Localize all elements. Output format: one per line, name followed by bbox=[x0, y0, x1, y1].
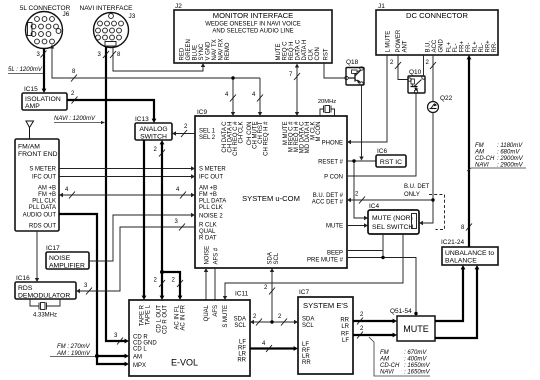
svg-text:DATA H: DATA H bbox=[302, 40, 308, 61]
svg-text:REQ H: REQ H bbox=[289, 41, 295, 60]
svg-text:PHONE: PHONE bbox=[322, 141, 343, 147]
svg-text:MUTE: MUTE bbox=[276, 44, 282, 61]
svg-text:B.U. DET #: B.U. DET # bbox=[313, 193, 344, 199]
svg-text:J6: J6 bbox=[63, 11, 70, 18]
svg-text:FM: FM bbox=[380, 350, 389, 356]
svg-text:AC IN FR: AC IN FR bbox=[181, 304, 187, 330]
slash 2 (CD OUT) bbox=[159, 280, 165, 287]
junction node (AM/MPX) bbox=[95, 354, 99, 358]
svg-text:SDA: SDA bbox=[302, 317, 314, 323]
svg-text:IC13: IC13 bbox=[135, 116, 149, 123]
slash 2 (SDA vertical) bbox=[269, 288, 275, 295]
svg-text:: 400mV: : 400mV bbox=[404, 357, 427, 363]
svg-text:RR+: RR+ bbox=[486, 40, 492, 53]
svg-text:UNBALANCE to: UNBALANCE to bbox=[445, 250, 494, 257]
svg-text:MUTE: MUTE bbox=[326, 224, 343, 230]
svg-text:SCL: SCL bbox=[234, 323, 246, 329]
svg-text:AFS #: AFS # bbox=[214, 247, 220, 264]
IC4 MUTE (NOR) SEL SWITCH bbox=[368, 210, 419, 234]
svg-text:: 1180mV: : 1180mV bbox=[497, 143, 523, 149]
svg-text:AM: AM bbox=[379, 357, 389, 363]
svg-text:Q18: Q18 bbox=[346, 59, 359, 66]
svg-text:AM: AM bbox=[474, 150, 484, 156]
junction node (MUTE gate) bbox=[414, 312, 417, 315]
wire J3 NAVI audio down to E-VOL CD inputs (3 lines) bbox=[106, 47, 125, 341]
svg-text:QUAL: QUAL bbox=[199, 229, 216, 235]
junction node (RESET# branch) bbox=[352, 159, 355, 162]
wire J1 POWER/ANT to Q10 (2 lines) bbox=[398, 55, 408, 80]
IC16 RDS DEMODULATOR bbox=[15, 282, 76, 300]
svg-text:QUAL: QUAL bbox=[204, 304, 210, 321]
slash 2 (RR/LR) bbox=[357, 318, 363, 325]
slash 8 (J6 bus) bbox=[71, 75, 77, 82]
slash 2 (RF/LF) bbox=[357, 332, 363, 339]
svg-text:RL-: RL- bbox=[479, 43, 485, 53]
svg-text:AM +B: AM +B bbox=[199, 186, 217, 192]
svg-text:: 670mV: : 670mV bbox=[404, 350, 427, 356]
svg-text:RED: RED bbox=[180, 47, 186, 60]
transistor Q22 bbox=[428, 102, 439, 113]
svg-text:FM: FM bbox=[475, 143, 484, 149]
wire S METER bbox=[59, 168, 192, 170]
svg-text:RR: RR bbox=[340, 318, 349, 324]
svg-text:AM : 190mV: AM : 190mV bbox=[56, 351, 91, 357]
svg-text:SEL 1: SEL 1 bbox=[199, 129, 216, 135]
wire J6 to IC15 (3 lines) bbox=[43, 49, 45, 92]
svg-text:GREEN: GREEN bbox=[186, 39, 192, 60]
svg-text:S METER: S METER bbox=[29, 167, 56, 173]
svg-text:AM: AM bbox=[133, 355, 142, 361]
svg-text:: 1650mV: : 1650mV bbox=[404, 363, 431, 369]
svg-text:CD R OUT: CD R OUT bbox=[163, 305, 169, 334]
wire Q18 emitter to RESET# bbox=[361, 86, 363, 158]
svg-text:IC16: IC16 bbox=[16, 275, 30, 282]
value label NAVI : 1200mV bbox=[54, 116, 105, 124]
svg-text:NOISE 2: NOISE 2 bbox=[199, 214, 223, 220]
wire MUTE out upper to UNBALANCE bbox=[435, 268, 463, 321]
svg-text:ANT: ANT bbox=[403, 40, 409, 52]
svg-text:RST: RST bbox=[324, 48, 330, 60]
svg-text:MUTE: MUTE bbox=[403, 324, 429, 334]
IC21-24 UNBALANCE to BALANCE bbox=[442, 247, 498, 265]
svg-text:B.U.: B.U. bbox=[426, 40, 432, 52]
svg-text:RST IC: RST IC bbox=[380, 159, 402, 166]
svg-text:MPX: MPX bbox=[133, 363, 146, 369]
wire SDA/SCL between IC11 and IC7 bbox=[253, 321, 295, 323]
wire PRE MUTE # to MUTE transistors bbox=[347, 258, 416, 317]
svg-text:4.33MHz: 4.33MHz bbox=[33, 313, 57, 319]
svg-text:PLL DATA: PLL DATA bbox=[29, 205, 56, 211]
svg-text:TAPE L: TAPE L bbox=[146, 304, 152, 325]
value label 5L : 1200mV bbox=[8, 67, 44, 74]
IC13 ANALOG SWITCH bbox=[135, 123, 172, 141]
svg-text:FL-: FL- bbox=[453, 43, 459, 52]
value label FM : 270mV / AM : 190mV bbox=[50, 344, 95, 357]
IC11 E-VOL bbox=[129, 300, 250, 376]
slash 2 (ACC) bbox=[430, 62, 436, 69]
svg-text:RR: RR bbox=[302, 360, 311, 366]
svg-text:RR: RR bbox=[237, 358, 246, 364]
wire IC15 to IC13 (2 lines) bbox=[67, 100, 154, 121]
svg-text:IC9: IC9 bbox=[197, 109, 208, 116]
slash 3 (J3 top) bbox=[103, 51, 109, 58]
svg-text:NOISE: NOISE bbox=[205, 246, 211, 265]
svg-text:CLK: CLK bbox=[309, 49, 315, 61]
svg-text:DC CONNECTOR: DC CONNECTOR bbox=[406, 11, 468, 20]
wire J6 8-line bus to IC9 CH pins bbox=[52, 47, 260, 114]
svg-text:B.U. DET: B.U. DET bbox=[404, 184, 430, 190]
svg-text:Q51-54: Q51-54 bbox=[390, 308, 412, 315]
svg-text:FL+: FL+ bbox=[447, 41, 453, 52]
svg-text:IC21-24: IC21-24 bbox=[441, 239, 465, 246]
svg-text:BLUE: BLUE bbox=[193, 45, 199, 61]
slash 2 (POWER) bbox=[395, 62, 401, 69]
svg-text:MONITOR INTERFACE: MONITOR INTERFACE bbox=[213, 11, 293, 20]
wire IC4 output to PRE MUTE node bbox=[382, 234, 384, 258]
connector J3 (NAVI INTERFACE) bbox=[94, 13, 129, 48]
svg-text:IC6: IC6 bbox=[377, 148, 388, 155]
slash 3 (RDS right) bbox=[179, 224, 185, 231]
svg-text:PRE MUTE #: PRE MUTE # bbox=[307, 258, 344, 264]
wire AUDIO OUT to E-VOL AM/MPX bbox=[59, 214, 125, 364]
svg-text:SDA: SDA bbox=[268, 252, 274, 264]
slash 2 (SDA left) bbox=[256, 319, 262, 326]
wire J3 to J2 V GND (8 lines) bbox=[113, 48, 203, 72]
svg-text:ISOLATION: ISOLATION bbox=[25, 96, 61, 103]
svg-text:LF: LF bbox=[342, 338, 349, 344]
svg-text:FR-: FR- bbox=[466, 43, 472, 53]
svg-text:: 680mV: : 680mV bbox=[497, 150, 520, 156]
svg-text:BEEP: BEEP bbox=[327, 251, 343, 257]
wire IC4 output to IC11 S MUTE bbox=[225, 234, 403, 297]
svg-text:FM/AM: FM/AM bbox=[18, 144, 40, 151]
svg-text:NAVI INTERFACE: NAVI INTERFACE bbox=[80, 5, 134, 12]
svg-text:GND: GND bbox=[439, 39, 445, 53]
slash 2 (SDA right) bbox=[281, 319, 287, 326]
svg-text:E-VOL: E-VOL bbox=[171, 358, 198, 368]
svg-text:AMPLIFIER: AMPLIFIER bbox=[49, 263, 85, 270]
wire LF/RF/LR/RR bus IC11 to IC7 (4 lines) bbox=[250, 347, 295, 349]
svg-text:R DAT: R DAT bbox=[199, 236, 217, 242]
wire E-VOL CD OUT loop to IC13 (2 lines) bbox=[162, 143, 180, 297]
svg-text:J2: J2 bbox=[175, 3, 182, 10]
junction node (CD OUT loop) bbox=[160, 270, 164, 274]
svg-text:BALANCE: BALANCE bbox=[445, 258, 477, 265]
svg-text:NAVI : 1200mV: NAVI : 1200mV bbox=[54, 116, 96, 122]
svg-text:NAV RX: NAV RX bbox=[219, 39, 225, 61]
svg-text:CON: CON bbox=[315, 47, 321, 60]
slash 2 (AC IN) bbox=[177, 280, 183, 287]
svg-text:AMP: AMP bbox=[25, 103, 40, 110]
svg-text:RL+: RL+ bbox=[473, 41, 479, 53]
slash 7 (J2 bus) bbox=[294, 73, 300, 80]
wire NOISE AMP to IC9 NOISE 2 bbox=[89, 215, 192, 261]
wire PHONE to J1 L MUTE bbox=[350, 55, 387, 142]
svg-text:NOISE: NOISE bbox=[49, 255, 71, 262]
svg-text:: 1650mV: : 1650mV bbox=[404, 370, 431, 376]
connector J1 DC CONNECTOR bbox=[376, 10, 498, 55]
svg-text:MUTE (NOR): MUTE (NOR) bbox=[372, 215, 413, 222]
svg-text:ONLY: ONLY bbox=[404, 192, 420, 198]
value table FM/AM/CD-CH/NAVI (mute out) bbox=[369, 337, 431, 376]
wire RESET# branch to IC4 bbox=[354, 161, 365, 218]
svg-text:IC7: IC7 bbox=[299, 289, 310, 296]
note B.U. DET ONLY bbox=[404, 184, 430, 198]
svg-text:DEMODULATOR: DEMODULATOR bbox=[18, 293, 70, 300]
slash 8 (speaker bus) bbox=[466, 224, 472, 231]
svg-text:IC4: IC4 bbox=[369, 203, 380, 210]
slash 4 (CH group 2) bbox=[257, 95, 263, 102]
transistor Q10 bbox=[408, 76, 425, 93]
wire MUTE out lower to UNBALANCE bbox=[435, 268, 477, 338]
wire IC9 MUTE to IC4 bbox=[347, 225, 365, 227]
slash 4 (PLL left) bbox=[69, 192, 75, 199]
connector J2 MONITOR INTERFACE bbox=[174, 10, 332, 63]
slash 4 (LF bus) bbox=[266, 345, 272, 352]
svg-text:CH CLK: CH CLK bbox=[239, 122, 245, 144]
svg-text:WEDGE ONESELF IN NAVI VOICE: WEDGE ONESELF IN NAVI VOICE bbox=[205, 22, 301, 28]
transistor group Q51-54 MUTE bbox=[397, 316, 435, 341]
svg-text:AUDIO OUT: AUDIO OUT bbox=[23, 213, 57, 219]
wire Q10 collector to J1 bbox=[423, 55, 425, 76]
svg-text:IC11: IC11 bbox=[235, 291, 249, 298]
wire IFC OUT bbox=[59, 176, 192, 178]
slash 3 (RDS left) bbox=[86, 288, 92, 295]
wire IC7 RF/LF to MUTE (2 lines) bbox=[353, 334, 394, 336]
wire J2 RST to Q18 base bbox=[324, 63, 345, 78]
op-amp IC15 ISOLATION AMP bbox=[22, 93, 67, 110]
slash 2 (IC15-IC13) bbox=[72, 97, 78, 104]
svg-text:RDS OUT: RDS OUT bbox=[29, 224, 56, 230]
svg-text:FM +B: FM +B bbox=[199, 192, 217, 198]
svg-text:IFC OUT: IFC OUT bbox=[32, 175, 56, 181]
IC7 SYSTEM E'S bbox=[298, 297, 353, 374]
svg-text:R CLK: R CLK bbox=[199, 223, 217, 229]
svg-text:J1: J1 bbox=[378, 3, 385, 10]
svg-text:POWER: POWER bbox=[396, 29, 402, 52]
svg-text:SYSTEM E'S: SYSTEM E'S bbox=[303, 301, 348, 310]
wire UNBALANCE to J1 speakers (8 lines) bbox=[468, 58, 470, 247]
svg-text:ACC: ACC bbox=[432, 39, 438, 52]
wire node to IC4 right side bbox=[423, 200, 434, 223]
svg-text:DATA C: DATA C bbox=[296, 39, 302, 60]
svg-text:L MUTE: L MUTE bbox=[386, 31, 392, 53]
IC9 SYSTEM u-COM bbox=[195, 116, 347, 268]
svg-text:5L : 1200mV: 5L : 1200mV bbox=[8, 67, 43, 73]
connector J6 (5L CONNECTOR) bbox=[26, 12, 63, 49]
svg-text:RF: RF bbox=[341, 332, 349, 338]
FM/AM FRONT END bbox=[15, 139, 59, 231]
svg-text:SEL 2: SEL 2 bbox=[199, 135, 216, 141]
svg-text:PLL DATA: PLL DATA bbox=[199, 199, 226, 205]
svg-text:AND SELECTED AUDIO LINE: AND SELECTED AUDIO LINE bbox=[212, 29, 293, 35]
slash 3 (J6-IC15) bbox=[41, 51, 47, 58]
svg-text:CD-CH: CD-CH bbox=[380, 363, 400, 369]
svg-text:SYNC: SYNC bbox=[199, 43, 205, 60]
svg-text:FM +B: FM +B bbox=[38, 192, 56, 198]
wire PLL bus (4 lines) bbox=[62, 194, 192, 196]
slash 2 (SEL) bbox=[181, 130, 187, 137]
wire IC7 RR/LR to MUTE (2 lines) bbox=[353, 320, 394, 322]
wire IC13 to E-VOL TAPE (2 lines) bbox=[143, 140, 145, 297]
svg-text:SWITCH: SWITCH bbox=[140, 134, 167, 141]
svg-text:CD-CH: CD-CH bbox=[475, 156, 495, 162]
antenna bbox=[26, 121, 34, 139]
svg-text:Q10: Q10 bbox=[409, 69, 422, 76]
svg-text:CH REQ H #: CH REQ H # bbox=[264, 121, 270, 156]
svg-text:20MHz: 20MHz bbox=[318, 99, 336, 105]
svg-text:ANALOG: ANALOG bbox=[139, 126, 167, 133]
svg-text:IFC OUT: IFC OUT bbox=[199, 175, 223, 181]
svg-text:REQ C: REQ C bbox=[283, 41, 289, 61]
svg-text:NAVI: NAVI bbox=[380, 370, 394, 376]
wire IC9 B.U.DET/ACC DET bus (2 lines) bbox=[350, 199, 433, 201]
svg-text:RDS: RDS bbox=[18, 285, 33, 292]
wire BEEP stub bbox=[347, 250, 383, 252]
wire IC9 AFS# to E-VOL AFS bbox=[214, 268, 216, 300]
wire J1 ACC to Q22 (2 lines) bbox=[432, 55, 434, 102]
wire IC9 NOISE to E-VOL QUAL bbox=[205, 271, 207, 300]
svg-text:RR-: RR- bbox=[492, 42, 498, 53]
svg-text:S METER: S METER bbox=[199, 167, 226, 173]
wire P CON to Q10 bbox=[347, 94, 416, 177]
slash 8 (J3-J2) bbox=[110, 51, 116, 58]
svg-text:SCL: SCL bbox=[274, 252, 280, 264]
wire Q22 to B.U./ACC DET node bbox=[432, 113, 434, 201]
svg-text:REMO: REMO bbox=[225, 42, 231, 60]
svg-text:CD L: CD L bbox=[133, 347, 147, 353]
svg-text:SEL SWITCH: SEL SWITCH bbox=[372, 224, 413, 231]
slash 2 (IC13 lower) bbox=[159, 150, 165, 157]
value table FM/AM/CD-CH/NAVI (line out) bbox=[467, 143, 526, 171]
svg-text:SDA: SDA bbox=[234, 317, 246, 323]
svg-text:S MUTE: S MUTE bbox=[223, 305, 229, 328]
junction node (B.U. DET node) bbox=[431, 198, 434, 201]
svg-text:NAV TX: NAV TX bbox=[212, 39, 218, 60]
svg-text:SYSTEM u-COM: SYSTEM u-COM bbox=[242, 194, 300, 203]
svg-text:FM : 270mV: FM : 270mV bbox=[57, 344, 91, 350]
svg-text:AFS: AFS bbox=[213, 305, 219, 317]
svg-text:PLL CLK: PLL CLK bbox=[199, 205, 223, 211]
wire RDS bus IC9 to IC16 (3 lines) bbox=[80, 227, 196, 291]
svg-text:IC17: IC17 bbox=[46, 245, 60, 252]
svg-text:: 2900mV: : 2900mV bbox=[497, 156, 524, 162]
junction node (SDA/SCL) bbox=[270, 320, 273, 323]
svg-text:J3: J3 bbox=[129, 13, 136, 20]
slash 3 (E-VOL CD in) bbox=[117, 338, 123, 345]
svg-text:Q22: Q22 bbox=[440, 95, 453, 102]
slash 4 (PLL right) bbox=[180, 192, 186, 199]
svg-text:ACC DET #: ACC DET # bbox=[312, 200, 344, 206]
crystal X2 4.33MHz bbox=[30, 299, 60, 310]
IC17 NOISE AMPLIFIER bbox=[46, 252, 89, 270]
junction node (J6 bus branch) bbox=[231, 76, 234, 79]
svg-text:FRONT END: FRONT END bbox=[18, 151, 58, 158]
IC6 RST IC bbox=[376, 155, 406, 167]
wire J2 7-line bus to IC9 M pins bbox=[296, 66, 298, 114]
dashed bracket (B.U. DET ONLY) bbox=[429, 195, 445, 230]
crystal X1 20MHz bbox=[320, 106, 335, 117]
svg-text:PLL CLK: PLL CLK bbox=[32, 199, 56, 205]
wire IC9 SDA/SCL down (2 lines) bbox=[271, 271, 273, 322]
svg-text:FR+: FR+ bbox=[460, 41, 466, 53]
svg-text:IC15: IC15 bbox=[24, 86, 38, 93]
transistor Q18 bbox=[345, 67, 364, 85]
svg-text:P CON: P CON bbox=[324, 175, 343, 181]
wire FM/AM RDS OUT to IC16 bbox=[36, 231, 38, 280]
svg-text:AM +B: AM +B bbox=[38, 186, 56, 192]
svg-text:M CON: M CON bbox=[316, 122, 322, 142]
svg-text:V GND: V GND bbox=[206, 41, 212, 61]
junction node (PRE MUTE node) bbox=[381, 256, 384, 259]
slash 2 (BU/ACC DET) bbox=[359, 197, 365, 204]
svg-text:SCL: SCL bbox=[302, 323, 314, 329]
slash 4 (CH group 1) bbox=[230, 95, 236, 102]
svg-text:RESET #: RESET # bbox=[318, 160, 344, 166]
svg-text:LR: LR bbox=[341, 324, 349, 330]
wire IC9 SEL to IC13 (2 lines) bbox=[176, 133, 196, 135]
wire RESET# to RST IC bbox=[347, 160, 376, 162]
